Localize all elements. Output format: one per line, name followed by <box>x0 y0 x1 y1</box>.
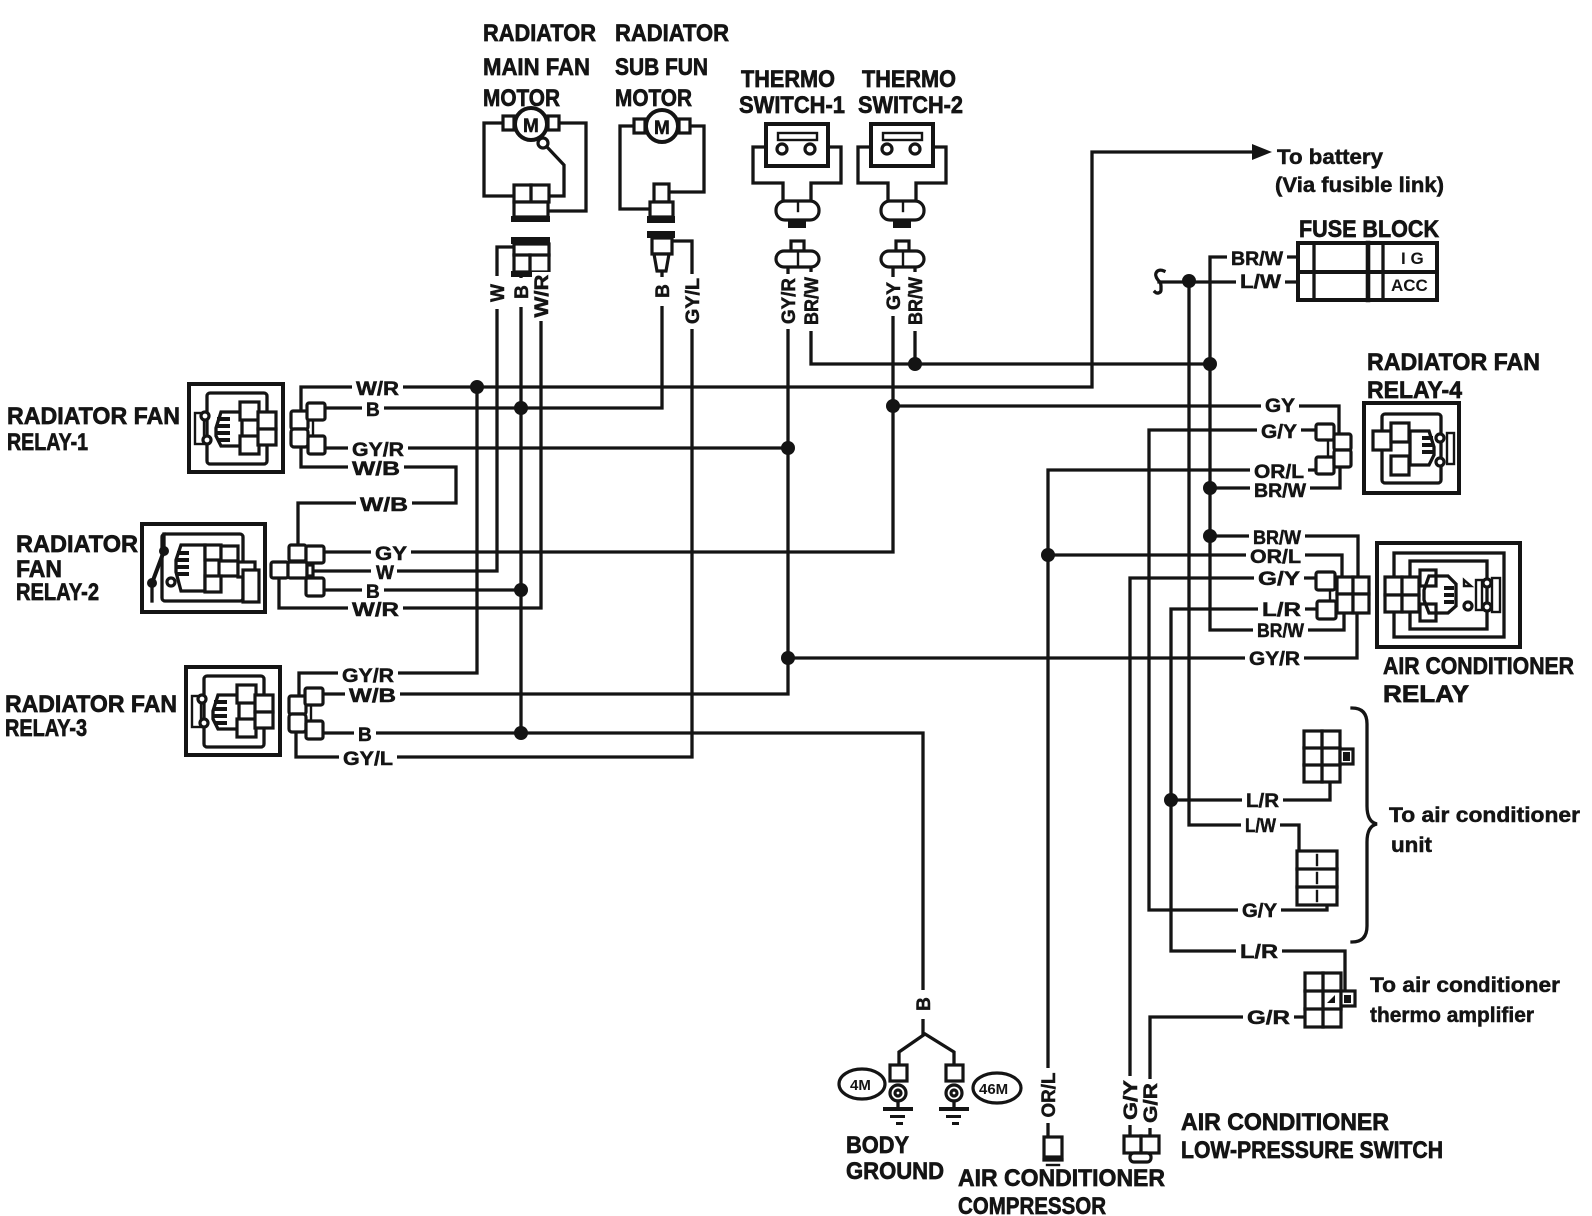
svg-text:COMPRESSOR: COMPRESSOR <box>958 1193 1106 1216</box>
thermo switch-1 harness connector <box>791 241 804 251</box>
AC relay box <box>1377 543 1520 647</box>
svg-text:RADIATOR FAN: RADIATOR FAN <box>1367 349 1540 376</box>
wire L/W : fuse block ACC feed left to harness hook <box>1159 280 1298 283</box>
label W relay-2 <box>371 561 397 581</box>
relay R3 box <box>186 667 280 755</box>
thermo switch-1 side wings <box>753 147 783 201</box>
junction dot W/R x477 <box>470 380 484 394</box>
label BR/W ac5 <box>1253 620 1308 639</box>
svg-text:THERMO: THERMO <box>862 66 956 93</box>
svg-text:46M: 46M <box>979 1081 1008 1098</box>
svg-text:B: B <box>366 400 380 421</box>
svg-text:L/R: L/R <box>1240 942 1278 963</box>
svg-text:To battery: To battery <box>1277 146 1383 169</box>
wire W/R : relay-1 W/R row right then up to battery arrow <box>301 152 1253 411</box>
svg-text:GY: GY <box>1265 396 1295 417</box>
main fan motor terminal tab right <box>548 116 559 130</box>
thermo switch-1 body box <box>766 124 828 166</box>
svg-text:BR/W: BR/W <box>802 277 823 325</box>
wire BR/W : fuse block IG feed bus down to AC relay BR/W row <box>1210 257 1344 630</box>
label W/R relay-1 <box>352 378 403 398</box>
svg-text:M: M <box>523 116 539 137</box>
junction dot B relay-2 <box>514 583 528 597</box>
wire G/Y : AC relay row 3 left then down to low-pressure switch <box>1130 578 1316 1136</box>
label OR/L vertical <box>1039 1068 1058 1123</box>
sub fan motor pin block <box>654 184 669 202</box>
svg-text:AIR CONDITIONER: AIR CONDITIONER <box>958 1165 1165 1192</box>
sub fan motor M circle <box>646 110 678 142</box>
junction dot BR/W relay-4 <box>1203 481 1217 495</box>
svg-text:GY/R: GY/R <box>1249 649 1300 670</box>
main fan motor switch contact <box>538 138 548 148</box>
wire L/W : junction down to air conditioner unit L/W row <box>1189 281 1299 851</box>
ground symbol left <box>883 1107 913 1111</box>
label OR/L ac2 <box>1246 546 1305 565</box>
label B sub vertical <box>653 277 672 306</box>
wire W : main fan motor to relay-2 W row <box>311 247 514 571</box>
label W/B relay-3 <box>345 684 400 704</box>
svg-text:W/B: W/B <box>349 686 396 707</box>
arrowhead to battery <box>1252 144 1272 160</box>
body ground connector right <box>946 1065 963 1081</box>
wire BR/W : thermo switch-2 lead down to BR/W row <box>913 267 916 364</box>
wire GY/L : sub fan motor down then left to relay-3 GY/L row <box>296 241 692 757</box>
junction dot L/R <box>1164 793 1178 807</box>
sub fan harness connector <box>647 231 675 238</box>
main fan harness connector <box>511 237 550 244</box>
label BR/W relay-4 <box>1250 479 1310 498</box>
svg-text:4M: 4M <box>850 1077 871 1094</box>
wire L/R : junction right to air conditioner unit connector <box>1171 782 1330 800</box>
wire W/B : relay-1 W/B row S-route down to relay-2 connector <box>298 447 456 545</box>
wire G/Y : relay-4 row left then down to air conditioner unit G/Y <box>1149 430 1327 910</box>
label G/R vertical <box>1141 1079 1160 1128</box>
thermo switch-2 harness connector <box>896 241 909 251</box>
wire OR/L : relay-4 row left then down to compressor <box>1048 470 1316 1137</box>
svg-text:AIR CONDITIONER: AIR CONDITIONER <box>1383 653 1574 680</box>
svg-text:G/Y: G/Y <box>1121 1080 1142 1120</box>
svg-text:AIR CONDITIONER: AIR CONDITIONER <box>1181 1109 1389 1136</box>
label G/Y ac3 <box>1254 568 1304 587</box>
svg-text:FUSE BLOCK: FUSE BLOCK <box>1299 216 1440 243</box>
main fan motor connector block <box>514 185 549 202</box>
thermo switch-2 body box <box>871 124 933 166</box>
sub fan motor terminal tab left <box>634 119 645 133</box>
junction dot GY thermo switch-2 <box>886 399 900 413</box>
sub fan motor terminal tab right <box>679 119 690 133</box>
svg-text:B: B <box>512 285 533 299</box>
label W vertical <box>487 276 506 309</box>
wire G/R : thermo amplifier left then down to low-pressure switch <box>1150 1017 1303 1136</box>
junction dot GY/R air conditioner relay row <box>781 651 795 665</box>
label GY relay-4 <box>1261 395 1299 415</box>
wire L/R : AC relay row 4 down to thermo amplifier <box>1171 609 1345 991</box>
junction dot GY/R thermo switch-1 <box>781 441 795 455</box>
svg-text:RELAY: RELAY <box>1383 681 1469 708</box>
harness hook symbol <box>1155 270 1164 293</box>
label OR/L relay-4 <box>1250 461 1308 480</box>
svg-text:GY/R: GY/R <box>342 666 394 687</box>
thermo switch-1 dome <box>776 201 819 220</box>
svg-text:W/R: W/R <box>352 600 399 621</box>
wire GY/R : thermo switch-1 down, then left as relay-3 W/B row <box>323 267 788 694</box>
svg-text:W: W <box>488 284 509 302</box>
svg-text:(Via fusible link): (Via fusible link) <box>1275 174 1444 197</box>
svg-text:SUB FUN: SUB FUN <box>615 54 708 81</box>
svg-text:RADIATOR FAN: RADIATOR FAN <box>5 691 177 718</box>
label G/Y vertical <box>1121 1076 1140 1125</box>
junction dot BR/W bus top <box>1203 357 1217 371</box>
relay R2 box <box>142 524 265 612</box>
svg-text:W/R: W/R <box>356 379 399 400</box>
relay R1 connector <box>291 403 325 454</box>
label W/B relay-1 <box>348 457 404 477</box>
label L/R ac4 <box>1258 599 1305 618</box>
relay R3 connector <box>289 688 323 739</box>
label L/R ac unit <box>1242 790 1283 809</box>
wire B : sub fan motor down then left to relay-1 B row <box>325 270 662 408</box>
label GY/R relay-3 <box>338 663 398 684</box>
svg-text:G/R: G/R <box>1141 1083 1162 1123</box>
svg-text:BR/W: BR/W <box>1253 528 1301 549</box>
label BR/W ac1 <box>1249 527 1305 546</box>
svg-text:thermo amplifier: thermo amplifier <box>1370 1004 1534 1027</box>
label BR/W ts1 vertical <box>802 272 821 331</box>
wire B : relay-3 B row right then down to body ground <box>323 733 923 1034</box>
label GY/L relay-3 <box>339 747 397 767</box>
svg-text:RELAY-3: RELAY-3 <box>5 715 87 742</box>
svg-text:L/W: L/W <box>1245 816 1276 837</box>
svg-text:RELAY-1: RELAY-1 <box>7 429 88 456</box>
thermo switch-2 side wings <box>858 147 888 201</box>
label L/R thermo amp <box>1236 941 1282 960</box>
svg-text:G/R: G/R <box>1247 1008 1290 1029</box>
svg-text:RELAY-4: RELAY-4 <box>1367 377 1463 404</box>
label G/R thermo amp <box>1243 1007 1294 1026</box>
label B body ground vertical <box>914 990 933 1019</box>
svg-text:BR/W: BR/W <box>1231 249 1283 270</box>
svg-text:L/R: L/R <box>1262 600 1301 621</box>
junction dot B relay-1 <box>514 401 528 415</box>
air conditioner compressor connector <box>1044 1137 1062 1165</box>
svg-text:To air conditioner: To air conditioner <box>1389 804 1580 827</box>
label BR/W ts2 vertical <box>906 272 925 331</box>
svg-text:M: M <box>654 118 670 139</box>
curly brace to air conditioner unit <box>1352 708 1377 942</box>
label G/Y relay-4 <box>1257 421 1301 440</box>
svg-text:RELAY-2: RELAY-2 <box>16 579 99 606</box>
label W/R relay-2 <box>348 598 403 618</box>
junction dot OR/L <box>1041 548 1055 562</box>
AC unit connector upper <box>1304 731 1353 782</box>
svg-text:I G: I G <box>1401 249 1424 268</box>
wire GY/R : AC relay row 6 left to junction on thermo switch-1 lead <box>788 613 1357 658</box>
sub fan motor loop right <box>669 126 704 192</box>
svg-text:BR/W: BR/W <box>906 277 927 325</box>
svg-text:OR/L: OR/L <box>1039 1072 1060 1117</box>
body ground connector left <box>890 1065 907 1081</box>
relay R1 box <box>189 384 283 472</box>
relay R4 connector <box>1316 424 1351 474</box>
label G/Y ac unit <box>1238 900 1281 919</box>
sub fan motor loop left <box>620 126 650 209</box>
main fan motor terminal tab left <box>503 116 514 130</box>
svg-text:OR/L: OR/L <box>1250 547 1301 568</box>
wire GY : junction to radiator fan relay-4 connector <box>893 406 1339 434</box>
svg-text:L/W: L/W <box>1240 272 1281 293</box>
relay R2 connector <box>271 545 324 596</box>
svg-text:W/B: W/B <box>360 495 408 516</box>
AC relay connector <box>1316 572 1369 619</box>
thermo switch-2 black tab <box>893 219 911 228</box>
svg-text:G/Y: G/Y <box>1242 901 1277 922</box>
svg-text:BR/W: BR/W <box>1257 621 1304 642</box>
junction dot L/W <box>1182 274 1196 288</box>
main fan motor M circle <box>515 108 547 140</box>
svg-text:BR/W: BR/W <box>1254 481 1306 502</box>
wire BR/W : thermo switch-1 lead right to BR/W bus <box>811 267 1210 364</box>
svg-text:W/B: W/B <box>352 459 400 480</box>
main fan motor loop right <box>549 123 586 211</box>
AC unit connector lower <box>1297 851 1337 905</box>
thermo switch-2 dome <box>881 201 924 220</box>
wire BR/W : relay-4 row from bus junction <box>1210 467 1340 488</box>
svg-text:MOTOR: MOTOR <box>615 85 692 112</box>
svg-text:MOTOR: MOTOR <box>483 85 560 112</box>
svg-text:GY/L: GY/L <box>683 278 704 324</box>
label B relay-2 <box>362 580 384 600</box>
label GY/R vertical <box>779 274 798 329</box>
oval 46M <box>973 1073 1021 1103</box>
svg-text:SWITCH-1: SWITCH-1 <box>739 92 845 119</box>
svg-text:B: B <box>914 997 935 1011</box>
wire B : relay-2 B row right to junction <box>324 588 522 591</box>
label L/W ac unit <box>1241 815 1280 834</box>
svg-text:GY/L: GY/L <box>343 749 393 770</box>
ground symbol right <box>939 1107 969 1111</box>
label GY/L vertical <box>683 274 702 329</box>
body ground Y split <box>899 1034 954 1065</box>
svg-text:B: B <box>653 284 674 298</box>
fuse block box <box>1298 243 1437 300</box>
label B main vertical <box>512 278 531 307</box>
wire BR/W : AC relay row 1 from bus junction <box>1210 536 1358 577</box>
svg-text:BODY: BODY <box>846 1132 909 1159</box>
wire GY/R : relay-3 GY/R row up to junction on W/R row <box>299 387 477 696</box>
svg-text:W/R: W/R <box>532 274 553 317</box>
wire OR/L : AC relay row 2 from junction on compressor feed <box>1048 555 1342 577</box>
junction dot BR/W thermo switch-2 <box>908 357 922 371</box>
svg-text:unit: unit <box>1391 834 1432 857</box>
svg-text:G/Y: G/Y <box>1258 569 1300 590</box>
junction dot BR/W AC relay <box>1203 529 1217 543</box>
svg-text:RADIATOR: RADIATOR <box>615 20 729 47</box>
thermo amplifier connector <box>1305 973 1355 1027</box>
label GY/R relay-1 <box>348 438 408 458</box>
svg-text:L/R: L/R <box>1246 791 1279 812</box>
label B relay-3 <box>354 723 376 743</box>
air conditioner low-pressure switch connector <box>1124 1136 1159 1162</box>
svg-text:THERMO: THERMO <box>741 66 835 93</box>
svg-text:GY/R: GY/R <box>779 278 800 324</box>
svg-text:MAIN FAN: MAIN FAN <box>483 54 590 81</box>
svg-text:B: B <box>358 725 372 746</box>
oval 4M <box>839 1069 885 1099</box>
svg-text:G/Y: G/Y <box>1261 422 1297 443</box>
label GY relay-2 <box>371 542 411 562</box>
label B relay-1 <box>362 399 384 417</box>
label GY ts2 vertical <box>884 277 903 316</box>
svg-text:GROUND: GROUND <box>846 1158 944 1185</box>
svg-text:GY: GY <box>884 282 905 310</box>
svg-text:ACC: ACC <box>1391 276 1428 295</box>
svg-text:To air conditioner: To air conditioner <box>1370 974 1560 997</box>
label W/R vertical <box>532 272 551 321</box>
svg-text:RADIATOR FAN: RADIATOR FAN <box>7 403 180 430</box>
label BR/W fuse <box>1227 248 1287 267</box>
svg-text:RADIATOR: RADIATOR <box>16 531 138 558</box>
wire B : main fan motor down to relay-3 B row <box>519 277 522 733</box>
wire W/R : main fan motor down then left to relay-2 W/R row <box>279 277 541 608</box>
thermo switch-1 black tab <box>788 219 806 228</box>
wire GY : thermo switch-2 lead down then left to relay-2 GY row <box>324 267 893 552</box>
main fan motor loop left <box>484 123 514 196</box>
label L/W fuse <box>1236 271 1285 290</box>
label GY/R ac6 <box>1245 647 1304 666</box>
svg-text:LOW-PRESSURE SWITCH: LOW-PRESSURE SWITCH <box>1181 1137 1443 1164</box>
label W/B loop <box>356 493 412 513</box>
relay R4 box <box>1364 403 1459 493</box>
wire GY/R : relay-1 GY/R row to junction on thermo switch-1 lead <box>325 446 788 449</box>
junction dot B relay-3 <box>514 726 528 740</box>
svg-text:SWITCH-2: SWITCH-2 <box>858 92 963 119</box>
svg-text:RADIATOR: RADIATOR <box>483 20 596 47</box>
